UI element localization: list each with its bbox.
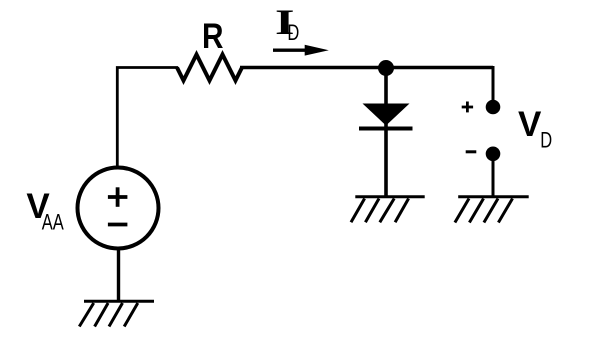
- wire from resistor to right corner: [240, 66, 493, 70]
- label I_D: [275, 3, 299, 46]
- plus sign: [462, 102, 473, 113]
- svg-text:D: D: [540, 128, 552, 153]
- ground (right): [455, 197, 529, 223]
- label V_D: [518, 105, 552, 153]
- minus sign: [466, 150, 477, 153]
- node junction dot: [378, 60, 394, 76]
- terminal dot -: [486, 147, 501, 162]
- plus sign inside source: [108, 187, 128, 207]
- wire from top wire down to + terminal: [492, 66, 495, 101]
- svg-text:D: D: [287, 21, 299, 46]
- svg-text:V: V: [518, 105, 542, 144]
- svg-text:AA: AA: [42, 210, 64, 235]
- wire from source bottom to ground: [117, 248, 120, 301]
- diode D1 (anode triangle): [363, 104, 410, 126]
- ground (left, below source): [79, 301, 154, 326]
- ground (below diode): [351, 197, 425, 223]
- label V_AA: [26, 187, 63, 235]
- minus sign inside source: [108, 223, 128, 227]
- current arrow I_D: [273, 45, 329, 56]
- svg-text:R: R: [202, 17, 223, 56]
- diode D1 (cathode bar): [359, 127, 413, 131]
- terminal dot +: [486, 100, 501, 115]
- resistor R: [177, 55, 242, 81]
- wire from - terminal to ground: [492, 154, 495, 196]
- voltage source V_AA circle: [78, 168, 159, 249]
- wire from node down through diode to ground: [384, 68, 388, 196]
- wire from voltage source up and right to resistor: [117, 68, 178, 169]
